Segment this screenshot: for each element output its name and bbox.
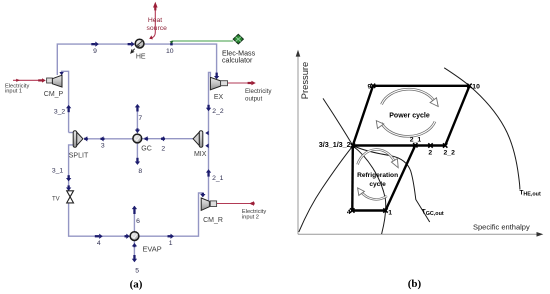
label 10 bbox=[166, 48, 174, 55]
label 2_1 bbox=[212, 175, 224, 182]
svg-text:Pressure: Pressure bbox=[299, 62, 310, 100]
wire TV to EVAP (stream 4) bbox=[69, 203, 130, 236]
wire GC water outlet stub (stream 8) bbox=[136, 144, 138, 164]
arrow into EX bbox=[214, 73, 219, 80]
svg-text:2: 2 bbox=[161, 146, 165, 153]
splitter SPLIT bbox=[73, 131, 83, 148]
compressor CM_P bbox=[47, 75, 62, 87]
point 4 bbox=[350, 208, 354, 212]
wire EVAP stub (stream 5) bbox=[133, 241, 135, 262]
svg-text:2_1: 2_1 bbox=[212, 175, 224, 182]
arrow stream 7 top up bbox=[135, 104, 140, 112]
node 10 square bbox=[170, 43, 173, 46]
edge 2_1-1 bbox=[386, 145, 416, 210]
isotherm T_GC,out bbox=[323, 98, 430, 222]
label 7 bbox=[138, 115, 142, 122]
stream number labels bbox=[52, 48, 224, 274]
point 3 bbox=[351, 143, 355, 147]
svg-text:8: 8 bbox=[138, 168, 142, 175]
label SPLIT bbox=[69, 153, 89, 160]
label GC bbox=[141, 146, 152, 153]
power cycle rotation arrow top bbox=[382, 89, 439, 106]
wire SPLIT to CM_P inlet (stream 3_2) bbox=[62, 71, 69, 132]
point 2_2 bbox=[443, 143, 447, 147]
label 4 bbox=[97, 240, 101, 247]
arrow stream 2 into GC bbox=[144, 136, 148, 141]
edge 10-2_2 bbox=[445, 86, 469, 146]
arrow stream 7 into GC down bbox=[135, 128, 140, 133]
label T_GC,out bbox=[422, 209, 444, 217]
label 2 bbox=[161, 146, 165, 153]
arrow stream 5 up into EVAP bbox=[132, 243, 137, 247]
edge 3-4 bbox=[351, 146, 354, 211]
label 2 bbox=[428, 150, 432, 157]
arrow stream 4 into EVAP bbox=[125, 234, 130, 239]
label 3_2 bbox=[54, 109, 66, 116]
svg-text:GC: GC bbox=[141, 146, 152, 153]
label Refrigeration cycle bbox=[357, 172, 398, 188]
point 2_1 bbox=[413, 143, 417, 147]
svg-text:output: output bbox=[245, 95, 262, 102]
svg-text:HE: HE bbox=[136, 54, 146, 61]
svg-text:EVAP: EVAP bbox=[143, 244, 162, 253]
mixer MIX bbox=[193, 131, 203, 148]
label Electricity input 1 bbox=[5, 84, 29, 95]
svg-text:9: 9 bbox=[93, 48, 97, 55]
arrow stream 9 into HE bbox=[128, 42, 135, 47]
cycle name labels bbox=[357, 112, 430, 188]
label 4 bbox=[347, 209, 351, 216]
green elec-mass link bbox=[170, 41, 234, 44]
svg-text:3/3_1/3_2: 3/3_1/3_2 bbox=[319, 140, 351, 149]
x axis Specific enthalpy bbox=[298, 232, 543, 237]
heat source line bbox=[149, 2, 157, 40]
heat exchanger HE bbox=[131, 39, 144, 53]
svg-text:6: 6 bbox=[136, 218, 140, 225]
svg-text:1: 1 bbox=[169, 240, 173, 247]
svg-text:cycle: cycle bbox=[369, 181, 386, 188]
arrow into TV down bbox=[66, 185, 71, 191]
expander EX bbox=[210, 77, 227, 90]
edge 9-10 bbox=[373, 85, 470, 87]
svg-text:Heat: Heat bbox=[148, 17, 162, 24]
label CM_R bbox=[203, 217, 223, 224]
arrow stream 2_2 down bbox=[206, 105, 211, 111]
svg-text:2_2: 2_2 bbox=[212, 108, 224, 115]
arrow stream 3 into SPLIT bbox=[84, 136, 88, 141]
electricity / heat lines (crimson) bbox=[13, 2, 256, 206]
label HE bbox=[136, 54, 146, 61]
label EVAP bbox=[143, 244, 162, 253]
electricity input 2 line bbox=[217, 201, 255, 205]
svg-text:TV: TV bbox=[52, 196, 60, 202]
point 9 bbox=[371, 84, 375, 88]
wire HE to EX inlet corner (stream 10) bbox=[145, 44, 217, 76]
point 1 bbox=[383, 208, 387, 212]
label 2_2 bbox=[212, 108, 224, 115]
wire GC to SPLIT (stream 3) bbox=[84, 138, 133, 140]
arrow stream 1 mid bbox=[168, 234, 175, 239]
wire SPLIT top jog bbox=[69, 132, 74, 134]
electricity output line bbox=[228, 81, 256, 85]
svg-text:(b): (b) bbox=[408, 278, 422, 290]
wire SPLIT to TV (stream 3_1) bbox=[69, 145, 74, 190]
label Electricity input 2 bbox=[242, 209, 266, 220]
edge 4-1 bbox=[352, 209, 385, 211]
wire CM_R to MIX (stream 2_1) bbox=[208, 146, 210, 201]
svg-text:CM_R: CM_R bbox=[203, 217, 223, 224]
svg-text:EX: EX bbox=[214, 94, 224, 101]
compressor CM_R bbox=[201, 198, 216, 210]
svg-text:2_2: 2_2 bbox=[444, 150, 456, 157]
label Specific enthalpy bbox=[473, 222, 530, 231]
saturation dome left branch bbox=[299, 146, 353, 232]
arrow stream 6 up bbox=[132, 206, 137, 214]
isotherm T_HE,out bbox=[444, 68, 520, 190]
label 2_1 bbox=[410, 137, 422, 144]
evaporator EVAP bbox=[130, 232, 139, 241]
svg-text:Refrigeration: Refrigeration bbox=[357, 172, 398, 179]
arrow stream 9 mid bbox=[91, 42, 99, 47]
label 3_1 bbox=[52, 168, 64, 175]
svg-text:(a): (a) bbox=[130, 279, 143, 291]
label T_HE,out bbox=[520, 189, 541, 197]
label 9 bbox=[368, 83, 372, 90]
refrigeration cycle rotation arrow bottom bbox=[358, 188, 387, 199]
label CM_P bbox=[44, 91, 64, 98]
svg-text:4: 4 bbox=[97, 240, 101, 247]
state point labels bbox=[319, 83, 541, 217]
electricity input 1 line bbox=[13, 78, 46, 82]
label 2_2 bbox=[444, 150, 456, 157]
wire MIX to GC (stream 2) bbox=[142, 138, 193, 140]
edge 3-2_2 bbox=[353, 144, 445, 146]
caption (a) bbox=[130, 279, 143, 291]
svg-text:Power cycle: Power cycle bbox=[389, 112, 430, 119]
svg-text:3_1: 3_1 bbox=[52, 168, 64, 175]
label 9 bbox=[93, 48, 97, 55]
refrigeration cycle edges bbox=[352, 145, 415, 210]
label 10 bbox=[472, 83, 480, 90]
svg-text:5: 5 bbox=[135, 267, 139, 274]
refrigeration cycle rotation arrow top bbox=[358, 149, 399, 167]
arrow into CM_R down bbox=[200, 193, 205, 198]
label MIX bbox=[194, 151, 207, 158]
svg-text:input 2: input 2 bbox=[242, 214, 259, 220]
label EX bbox=[214, 94, 224, 101]
label Elec-Mass calculator bbox=[222, 50, 256, 65]
gas cooler GC bbox=[133, 134, 142, 143]
wire top pipe CM_P to HE (stream 9) bbox=[57, 44, 134, 75]
label 3/3_1/3_2 bbox=[319, 140, 351, 149]
label TV bbox=[52, 196, 60, 202]
arrow stream 3_1 down bbox=[66, 175, 71, 181]
arrow into MIX upper port bbox=[205, 131, 208, 136]
svg-text:3: 3 bbox=[101, 142, 105, 149]
caption (b) bbox=[408, 278, 422, 290]
y axis Pressure bbox=[296, 50, 301, 235]
svg-text:CM_P: CM_P bbox=[44, 91, 64, 98]
wire EVAP stub (stream 6) bbox=[133, 206, 135, 231]
svg-text:MIX: MIX bbox=[194, 151, 207, 158]
svg-text:calculator: calculator bbox=[222, 56, 253, 64]
label 6 bbox=[136, 218, 140, 225]
svg-text:1: 1 bbox=[388, 210, 392, 217]
svg-text:9: 9 bbox=[368, 83, 372, 90]
throttle valve TV bbox=[67, 191, 74, 203]
svg-text:10: 10 bbox=[166, 48, 174, 55]
point 2 bbox=[428, 143, 432, 147]
arrow stream 8 down bbox=[135, 158, 140, 165]
svg-text:input 1: input 1 bbox=[5, 89, 22, 95]
label 8 bbox=[138, 168, 142, 175]
svg-text:10: 10 bbox=[472, 83, 480, 90]
saturation dome right branch bbox=[353, 146, 386, 234]
wire EX to MIX (stream 2_2) bbox=[209, 72, 211, 145]
arrow stream 2 mid bbox=[161, 136, 165, 141]
svg-text:7: 7 bbox=[138, 115, 142, 122]
svg-text:4: 4 bbox=[347, 209, 351, 216]
arrow stream 4 mid bbox=[95, 234, 103, 239]
arrow stream 3 mid bbox=[100, 136, 104, 141]
label Electricity output bbox=[245, 88, 272, 102]
label 5 bbox=[135, 267, 139, 274]
svg-text:Electricity: Electricity bbox=[245, 88, 272, 95]
svg-text:3_2: 3_2 bbox=[54, 109, 66, 116]
arrow stream 3_2 up bbox=[66, 105, 71, 112]
svg-text:2_1: 2_1 bbox=[410, 137, 422, 144]
label 1 bbox=[169, 240, 173, 247]
label 3 bbox=[101, 142, 105, 149]
state point markers bbox=[350, 84, 472, 213]
svg-text:Specific enthalpy: Specific enthalpy bbox=[473, 222, 530, 231]
arrow into CM_P bbox=[59, 72, 63, 75]
svg-text:2: 2 bbox=[428, 150, 432, 157]
point 10 bbox=[467, 84, 471, 88]
svg-text:SPLIT: SPLIT bbox=[69, 153, 89, 160]
edge 9-3 bbox=[353, 86, 373, 146]
component labels bbox=[44, 54, 224, 254]
label Pressure bbox=[299, 62, 310, 100]
svg-text:source: source bbox=[146, 25, 167, 32]
power cycle rotation arrow bottom bbox=[376, 121, 435, 137]
arrow stream 5 bottom down bbox=[132, 255, 137, 262]
flow arrows (navy) bbox=[59, 42, 219, 263]
arrow into MIX lower port bbox=[205, 144, 208, 149]
label Power cycle bbox=[389, 112, 430, 119]
power cycle edges bbox=[353, 86, 470, 146]
label Heat source bbox=[146, 17, 167, 32]
wire EVAP to CM_R inlet (stream 1) bbox=[140, 193, 203, 236]
arrow stream 2_1 up bbox=[206, 169, 211, 176]
Elec-Mass calculator diamond bbox=[233, 34, 243, 44]
label 1 bbox=[388, 210, 392, 217]
wire GC water inlet stub (stream 7) bbox=[136, 105, 138, 134]
